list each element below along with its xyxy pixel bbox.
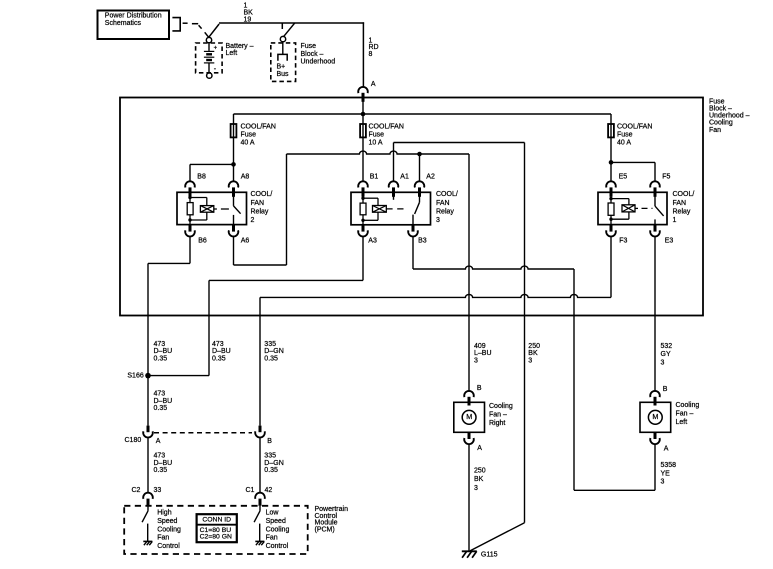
relay 3 switch	[413, 192, 420, 225]
relay 2 coil branch bottom	[190, 212, 207, 220]
svg-text:40 A: 40 A	[617, 140, 631, 147]
svg-text:250: 250	[528, 343, 540, 350]
svg-text:B6: B6	[198, 238, 207, 245]
svg-text:1: 1	[673, 217, 677, 224]
svg-text:Left: Left	[676, 419, 688, 426]
svg-text:C1: C1	[246, 487, 255, 494]
battery positive cable blade	[205, 32, 209, 37]
resistor in relay 1	[608, 203, 614, 215]
wire label 1 BK 19	[244, 3, 254, 24]
pin label C2	[132, 487, 141, 494]
splice S166	[145, 373, 209, 379]
label High Speed Cooling Fan Control	[157, 510, 181, 550]
relay U3 box (COOL/FAN Relay 3)	[351, 192, 431, 225]
wire to pin F5	[611, 162, 655, 181]
wire label 335 D-GN 0.35 (lower)	[264, 453, 283, 474]
svg-text:Block –: Block –	[301, 51, 324, 58]
svg-text:10 A: 10 A	[369, 140, 383, 147]
svg-text:Cooling: Cooling	[489, 403, 513, 410]
svg-text:335: 335	[264, 453, 276, 460]
wire B6 to splice drop	[148, 236, 190, 263]
B+ bus fixed contact stub	[281, 23, 283, 30]
svg-text:Cooling: Cooling	[709, 120, 733, 127]
relay label COOL/FAN Relay 3	[436, 191, 458, 224]
svg-text:Control: Control	[157, 543, 180, 550]
svg-text:3: 3	[474, 357, 478, 364]
svg-text:5358: 5358	[661, 462, 677, 469]
wire 473 D-BU to PCM	[147, 437, 149, 492]
svg-text:0.35: 0.35	[154, 405, 168, 412]
battery B+ terminal node	[206, 37, 211, 42]
pin label A8	[241, 174, 250, 181]
resistor in relay 2	[187, 203, 193, 215]
svg-text:M: M	[466, 412, 472, 421]
connector pin B1	[358, 181, 368, 196]
wire label 473 D-BU 0.35 (left upper)	[154, 341, 173, 362]
svg-text:E3: E3	[665, 238, 674, 245]
svg-text:B: B	[267, 438, 272, 445]
svg-text:3: 3	[528, 357, 532, 364]
svg-text:B8: B8	[197, 174, 206, 181]
svg-text:COOL/FAN: COOL/FAN	[241, 123, 276, 130]
svg-text:Fan –: Fan –	[489, 411, 507, 418]
svg-text:C2: C2	[132, 487, 141, 494]
svg-text:B: B	[477, 385, 482, 392]
svg-text:+: +	[214, 45, 218, 51]
svg-text:42: 42	[265, 487, 273, 494]
svg-text:B3: B3	[418, 238, 427, 245]
label Fuse Block - Underhood - Cooling Fan	[709, 98, 750, 133]
wire 1 BK 19 (top feed)	[219, 22, 364, 24]
svg-text:A: A	[664, 445, 669, 452]
pin label A (C180)	[156, 438, 161, 445]
svg-text:0.35: 0.35	[264, 355, 278, 362]
svg-text:FAN: FAN	[673, 200, 687, 207]
svg-text:High: High	[157, 510, 172, 517]
svg-text:473: 473	[154, 453, 166, 460]
svg-text:19: 19	[244, 17, 252, 24]
relay 3 fixed contact A1	[393, 192, 395, 200]
pin label B8	[197, 174, 206, 181]
wire 250 BK right fan to ground	[468, 444, 470, 551]
relay 1 coil actuator dashes	[635, 207, 653, 209]
connector pin F5	[650, 181, 660, 196]
reference box: Power Distribution Schematics	[98, 11, 170, 40]
svg-text:33: 33	[154, 487, 162, 494]
connector pin A1	[389, 181, 399, 196]
main bus wire inside fuse block	[234, 113, 612, 115]
pin label F5	[662, 174, 670, 181]
svg-text:S166: S166	[127, 372, 143, 379]
dashed bracket to Power Distribution Schematics	[172, 18, 187, 31]
svg-text:473: 473	[212, 341, 224, 348]
svg-text:Relay: Relay	[251, 208, 269, 215]
junction node on bus at feed	[361, 112, 366, 117]
relay 1 junction top	[609, 197, 612, 200]
pin label B (C180)	[267, 438, 272, 445]
svg-text:250: 250	[474, 467, 486, 474]
relay 1 junction bottom	[609, 218, 612, 221]
svg-text:A1: A1	[400, 174, 409, 181]
B+ bus cable blade	[283, 23, 295, 37]
svg-text:Fuse: Fuse	[709, 98, 725, 105]
connector C180 dashed link	[154, 432, 252, 434]
svg-text:COOL/FAN: COOL/FAN	[617, 123, 652, 130]
svg-text:Left: Left	[226, 50, 238, 57]
connector pin B3	[408, 225, 418, 237]
junction node relay 1 feed	[609, 160, 614, 165]
svg-text:D–BU: D–BU	[154, 348, 173, 355]
svg-text:A: A	[371, 81, 376, 88]
svg-text:Low: Low	[266, 510, 280, 517]
svg-text:Fuse: Fuse	[369, 132, 385, 139]
svg-text:Speed: Speed	[266, 518, 286, 525]
relay 2 switch	[234, 192, 241, 224]
relay 1 coil branch top	[611, 199, 629, 205]
motor M1 cooling fan - right	[454, 402, 485, 432]
wire label 532 GY 3	[661, 343, 673, 367]
resistor in relay 3	[360, 203, 366, 215]
svg-text:COOL/: COOL/	[251, 191, 273, 198]
pin label F3	[619, 238, 627, 245]
connector pin C1-42	[255, 493, 265, 506]
B+ bus terminal node	[280, 36, 285, 41]
fuse label COOL/FAN Fuse 10 A	[369, 123, 404, 146]
dashed link wire to battery	[192, 24, 202, 29]
label Cooling Fan - Right	[489, 403, 513, 427]
connector pin B6	[185, 225, 195, 237]
connector pin A (right fan)	[464, 432, 474, 444]
svg-text:335: 335	[264, 341, 276, 348]
relay 3 junction bottom	[361, 219, 364, 222]
wire A1 to ground feed	[394, 143, 525, 182]
svg-text:BK: BK	[474, 476, 484, 483]
svg-text:Speed: Speed	[157, 518, 177, 525]
fuse block - underhood - cooling fan box	[120, 98, 703, 316]
svg-text:0.35: 0.35	[264, 467, 278, 474]
pin label C1	[246, 487, 255, 494]
pin label E5	[619, 174, 628, 181]
svg-text:Right: Right	[489, 420, 505, 427]
motor M2 cooling fan - left	[640, 402, 671, 432]
connector pin A (left fan)	[650, 432, 660, 444]
connector pin F3	[606, 225, 616, 237]
svg-text:3: 3	[436, 217, 440, 224]
svg-text:473: 473	[154, 341, 166, 348]
svg-text:Fuse: Fuse	[301, 43, 317, 50]
relay 2 coil branch top	[190, 198, 207, 206]
battery negative terminal node	[207, 73, 212, 78]
svg-text:L–BU: L–BU	[474, 350, 492, 357]
svg-text:Relay: Relay	[436, 208, 454, 215]
connector pin E3	[650, 225, 660, 237]
svg-text:0.35: 0.35	[212, 355, 226, 362]
wire label 473 D-BU 0.35 (second upper)	[212, 341, 231, 362]
svg-text:Battery –: Battery –	[226, 43, 254, 50]
svg-text:A6: A6	[241, 238, 250, 245]
wire 250 BK relay ground	[524, 143, 526, 523]
svg-text:Cooling: Cooling	[266, 526, 290, 533]
svg-text:3: 3	[661, 479, 665, 486]
svg-text:40 A: 40 A	[241, 140, 255, 147]
svg-text:A2: A2	[426, 174, 435, 181]
pin label A6	[241, 238, 250, 245]
fuse COOL/FAN 10 A (middle)	[360, 124, 366, 137]
svg-text:A: A	[477, 445, 482, 452]
wire to pin B8	[190, 164, 234, 181]
svg-text:B: B	[663, 386, 668, 393]
svg-text:D–BU: D–BU	[154, 398, 173, 405]
wire label 335 D-GN 0.35 (upper)	[264, 341, 283, 362]
relay label COOL/FAN Relay 2	[251, 191, 273, 224]
wire label 250 BK 3 (lower)	[474, 467, 486, 492]
svg-text:Fuse: Fuse	[241, 132, 257, 139]
svg-text:Power Distribution: Power Distribution	[105, 13, 162, 20]
pin label B1	[370, 174, 379, 181]
connector pin A8	[229, 181, 239, 196]
wire bus to right 40A fuse	[610, 114, 612, 181]
wire label 473 D-BU 0.35 (middle)	[154, 391, 173, 412]
connector pin A3	[358, 225, 368, 237]
relay 2 junction bottom	[188, 218, 191, 221]
wire 5358 YE from left fan A	[654, 444, 656, 490]
wire A6 to switched node	[234, 154, 287, 265]
ground (PCM high speed driver)	[143, 541, 152, 545]
wire label 409 L-BU 3	[474, 343, 492, 364]
pin label A (left fan)	[664, 445, 669, 452]
pin label A3	[368, 238, 377, 245]
connector pin E5	[606, 181, 616, 196]
wire A3 to splice drop	[209, 236, 363, 375]
connector pin B (right fan)	[464, 391, 474, 406]
fuse label COOL/FAN Fuse 40 A (right)	[617, 123, 652, 146]
svg-text:Block –: Block –	[709, 106, 732, 113]
connector pin C2-33	[143, 493, 153, 506]
relay 3 coil line	[362, 192, 364, 225]
svg-text:Fan: Fan	[266, 535, 278, 542]
switched feed wire to A2 and right fan	[287, 151, 470, 154]
high speed fan control switch (in PCM)	[142, 506, 148, 541]
wire label 250 BK 3 (upper)	[528, 343, 540, 364]
svg-text:M: M	[652, 412, 658, 421]
relay 3 coil branch top	[363, 198, 378, 205]
B+ bus bar (in dashed box)	[271, 42, 296, 82]
junction node relay 2 feed	[231, 162, 236, 167]
svg-text:409: 409	[474, 343, 486, 350]
connector A (into fuse block)	[358, 87, 368, 102]
coil of relay 2	[200, 206, 213, 213]
svg-text:8: 8	[369, 51, 373, 58]
wire from battery positive to 1 BK feed	[209, 24, 219, 37]
wire node to pin A2	[419, 154, 421, 181]
relay 2 junction top	[188, 196, 191, 199]
wire 532 GY to left fan B	[654, 236, 656, 390]
label Cooling Fan - Left	[676, 402, 700, 426]
pin label E3	[665, 238, 674, 245]
svg-text:Underhood –: Underhood –	[709, 113, 750, 120]
pin label A1	[400, 174, 409, 181]
svg-text:2: 2	[251, 217, 255, 224]
relay 1 coil branch bottom	[611, 212, 629, 219]
svg-text:(PCM): (PCM)	[315, 527, 335, 534]
svg-text:F5: F5	[662, 174, 670, 181]
svg-text:Schematics: Schematics	[105, 20, 142, 27]
svg-text:A3: A3	[368, 238, 377, 245]
svg-text:Underhood: Underhood	[301, 59, 336, 66]
svg-text:3: 3	[661, 360, 665, 367]
svg-text:0.35: 0.35	[154, 467, 168, 474]
relay 2 coil actuator dashes	[214, 208, 232, 210]
svg-text:COOL/: COOL/	[436, 191, 458, 198]
powertrain control module (PCM) dashed box	[124, 506, 308, 554]
CONN ID table	[197, 514, 237, 542]
svg-text:Fan –: Fan –	[676, 411, 694, 418]
relay 1 switch	[655, 192, 664, 224]
svg-text:FAN: FAN	[436, 200, 450, 207]
label S166	[127, 372, 143, 379]
label G115	[481, 552, 498, 559]
label Powertrain Control Module (PCM)	[315, 506, 349, 534]
coil of relay 3	[373, 206, 387, 213]
fuse COOL/FAN 40 A (left)	[231, 124, 237, 137]
pin label 42	[265, 487, 273, 494]
label C180	[125, 437, 142, 444]
wire label 1 RD 8	[369, 37, 379, 58]
label Fuse Block - Underhood	[301, 43, 336, 65]
svg-text:Fuse: Fuse	[617, 132, 633, 139]
svg-text:Control: Control	[266, 543, 289, 550]
svg-text:CONN ID: CONN ID	[202, 517, 231, 524]
svg-text:Cooling: Cooling	[676, 402, 700, 409]
wire bus to left 40A fuse	[233, 114, 235, 181]
label Low Speed Cooling Fan Control	[266, 510, 290, 550]
wire 473 D-BU upper (B6 drop)	[147, 263, 149, 375]
wire 1 RD 8 (down feed)	[362, 22, 364, 86]
wire 473 D-BU to C180	[147, 376, 149, 426]
svg-text:G115: G115	[481, 552, 498, 559]
battery - left (cell symbol in dashed box)	[196, 43, 223, 73]
svg-text:473: 473	[154, 391, 166, 398]
svg-text:532: 532	[661, 343, 673, 350]
svg-text:BK: BK	[244, 10, 254, 17]
pin label B3	[418, 238, 427, 245]
relay 1 coil line	[610, 192, 612, 224]
fuse COOL/FAN 40 A (right)	[608, 124, 614, 137]
svg-text:Cooling: Cooling	[157, 526, 181, 533]
label Battery - Left	[226, 43, 254, 57]
relay 3 coil actuator dashes	[386, 208, 407, 210]
svg-text:D–BU: D–BU	[154, 460, 173, 467]
connector pin A6	[229, 225, 239, 237]
wire F3 to low speed control	[260, 236, 611, 425]
connector pin A2	[415, 181, 425, 196]
wire relay ground slant to G115	[470, 523, 524, 551]
pin label B6	[198, 238, 207, 245]
svg-text:B+: B+	[277, 64, 286, 71]
svg-text:A8: A8	[241, 174, 250, 181]
svg-text:COOL/FAN: COOL/FAN	[369, 123, 404, 130]
connector pin B (left fan)	[650, 391, 660, 406]
wire 335 D-GN to PCM	[259, 437, 261, 492]
relay 2 coil line	[189, 192, 191, 224]
svg-text:BK: BK	[528, 350, 538, 357]
wire 409 L-BU to right fan B	[468, 154, 470, 390]
pin label 33	[154, 487, 162, 494]
svg-text:YE: YE	[661, 470, 671, 477]
svg-text:1: 1	[244, 3, 248, 10]
pin label B (right fan)	[477, 385, 482, 392]
wire label 5358 YE 3	[661, 462, 677, 486]
relay 3 coil branch bottom	[363, 212, 378, 220]
relay U1 box (COOL/FAN Relay 1)	[598, 192, 667, 224]
svg-text:A: A	[156, 438, 161, 445]
coil of relay 1	[622, 205, 635, 212]
svg-text:D–GN: D–GN	[264, 460, 283, 467]
relay U2 box (COOL/FAN Relay 2)	[177, 192, 247, 224]
relay label COOL/FAN Relay 1	[673, 191, 695, 224]
svg-text:C2=80 GN: C2=80 GN	[200, 534, 232, 541]
svg-text:B1: B1	[370, 174, 379, 181]
pin label A2	[426, 174, 435, 181]
svg-text:3: 3	[474, 485, 478, 492]
svg-text:F3: F3	[619, 238, 627, 245]
relay 3 junction top	[361, 197, 364, 200]
svg-text:GY: GY	[661, 351, 671, 358]
pin label A (right fan)	[477, 445, 482, 452]
fuse label COOL/FAN Fuse 40 A (left)	[241, 123, 276, 146]
connector pin B8	[185, 181, 195, 196]
ground (PCM low speed driver)	[255, 541, 264, 545]
wire B3 to left fan A	[413, 236, 655, 490]
pin label A	[371, 81, 376, 88]
ground G115	[462, 551, 477, 557]
svg-text:0.35: 0.35	[154, 355, 168, 362]
svg-text:D–BU: D–BU	[212, 348, 231, 355]
low speed fan control switch (in PCM)	[254, 506, 260, 541]
svg-text:Fan: Fan	[709, 127, 721, 134]
junction node at A2	[417, 152, 422, 157]
svg-text:E5: E5	[619, 174, 628, 181]
wire label 473 D-BU 0.35 (lower)	[154, 453, 173, 474]
pin label B (left fan)	[663, 386, 668, 393]
svg-text:Relay: Relay	[673, 208, 691, 215]
connector C180 pin B	[255, 426, 265, 438]
connector C180 pin A	[143, 426, 153, 438]
svg-text:COOL/: COOL/	[673, 191, 695, 198]
svg-text:FAN: FAN	[251, 200, 265, 207]
svg-text:C180: C180	[125, 437, 142, 444]
bus wire from connector A	[362, 101, 364, 181]
svg-text:D–GN: D–GN	[264, 348, 283, 355]
svg-text:Fan: Fan	[157, 535, 169, 542]
svg-text:Bus: Bus	[277, 71, 290, 78]
